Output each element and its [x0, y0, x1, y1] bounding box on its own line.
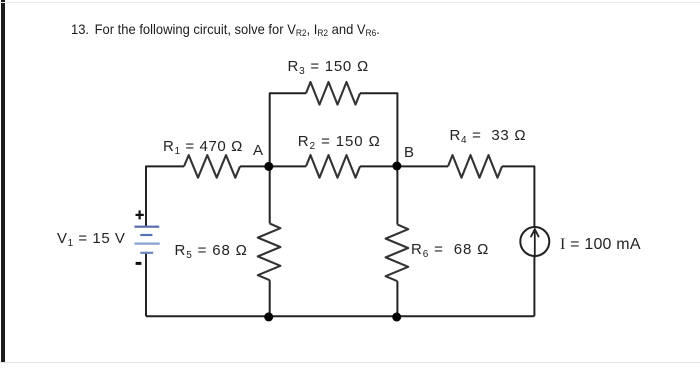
- resistor R6: [386, 225, 409, 282]
- battery minus terminal mark: [136, 262, 142, 265]
- battery V1 (cell plates): [134, 227, 159, 253]
- label R1 = 470 ohm: [163, 139, 243, 154]
- wire: node B to R4: [397, 165, 448, 167]
- resistor R4: [448, 155, 502, 178]
- node B junction dot: [392, 162, 401, 171]
- label R3 = 150 ohm: [288, 59, 369, 74]
- label node A: [253, 143, 263, 158]
- wire: R1 to node A: [240, 165, 270, 167]
- battery plus terminal mark: [136, 210, 144, 219]
- page top edge line: [0, 2, 700, 3]
- current source arrow: [531, 229, 539, 257]
- label I = 100 mA: [560, 237, 641, 253]
- wire: current source down to bottom-right corner: [533, 256, 535, 316]
- label R2 = 150 ohm: [298, 134, 381, 149]
- label node B: [404, 145, 414, 160]
- bottom-left junction dot: [264, 312, 273, 321]
- resistor R1: [184, 155, 240, 178]
- wire: left vertical (top) + top-left corner to R1: [146, 166, 184, 226]
- wire: R5 down to bottom rail: [269, 280, 271, 316]
- resistor R5: [258, 224, 281, 281]
- wire: R3 across and down to node B: [360, 93, 397, 166]
- label R6 = 68 ohm: [411, 242, 489, 257]
- wire: R2 to node B: [360, 165, 397, 167]
- wire: R4 to top-right corner down to current source: [502, 166, 534, 227]
- resistor R3: [306, 82, 360, 105]
- wire: bottom rail: [146, 315, 534, 317]
- problem title: [71, 22, 380, 36]
- label R4 = 33 ohm: [450, 128, 527, 143]
- page left edge bar: [1, 0, 5, 363]
- wire: node A to R2: [270, 165, 306, 167]
- current source I (circle): [520, 227, 549, 256]
- wire: node A down to R5: [269, 166, 271, 223]
- page bottom edge line: [0, 362, 700, 363]
- bottom-right junction dot: [392, 313, 401, 322]
- resistor R2: [306, 155, 360, 178]
- wire: bottom-left vertical up to battery: [145, 253, 147, 316]
- node A junction dot: [264, 162, 273, 171]
- wire: node A up and across to R3: [270, 93, 306, 166]
- label V1 = 15 V: [57, 231, 126, 246]
- wire: R6 down to bottom rail: [396, 281, 398, 316]
- label R5 = 68 ohm: [175, 243, 248, 258]
- wire: node B down to R6: [396, 166, 398, 224]
